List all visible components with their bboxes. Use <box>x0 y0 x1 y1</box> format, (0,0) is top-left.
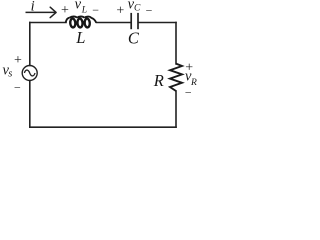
wire bottom <box>30 126 176 128</box>
wire left upper <box>29 23 31 66</box>
wire right upper <box>175 23 177 64</box>
wire right lower <box>175 91 177 127</box>
svg-text:−: − <box>14 80 21 94</box>
source sine wave <box>24 70 35 76</box>
wire left lower <box>29 81 31 128</box>
svg-text:R: R <box>153 71 164 90</box>
svg-text:L: L <box>75 28 85 47</box>
svg-text:C: C <box>128 29 140 48</box>
svg-text:−: − <box>92 3 99 17</box>
wire top-right segment <box>138 22 176 24</box>
svg-text:i: i <box>31 0 35 15</box>
svg-text:+: + <box>61 3 69 18</box>
wire top-middle segment <box>97 22 131 24</box>
svg-text:−: − <box>146 3 153 17</box>
svg-text:+: + <box>14 53 22 68</box>
wire top-left segment <box>30 22 66 24</box>
current arrow shaft <box>26 11 56 13</box>
svg-text:C: C <box>134 3 141 13</box>
svg-text:v: v <box>75 0 82 13</box>
svg-text:−: − <box>185 85 192 99</box>
resistor R zigzag <box>170 64 182 91</box>
current arrow open head <box>50 7 56 17</box>
capacitor C plates <box>131 13 138 29</box>
inductor L coil <box>66 16 97 27</box>
source vs circle <box>22 66 37 81</box>
svg-text:s: s <box>8 68 12 79</box>
svg-text:+: + <box>116 3 124 18</box>
svg-text:L: L <box>81 6 87 16</box>
